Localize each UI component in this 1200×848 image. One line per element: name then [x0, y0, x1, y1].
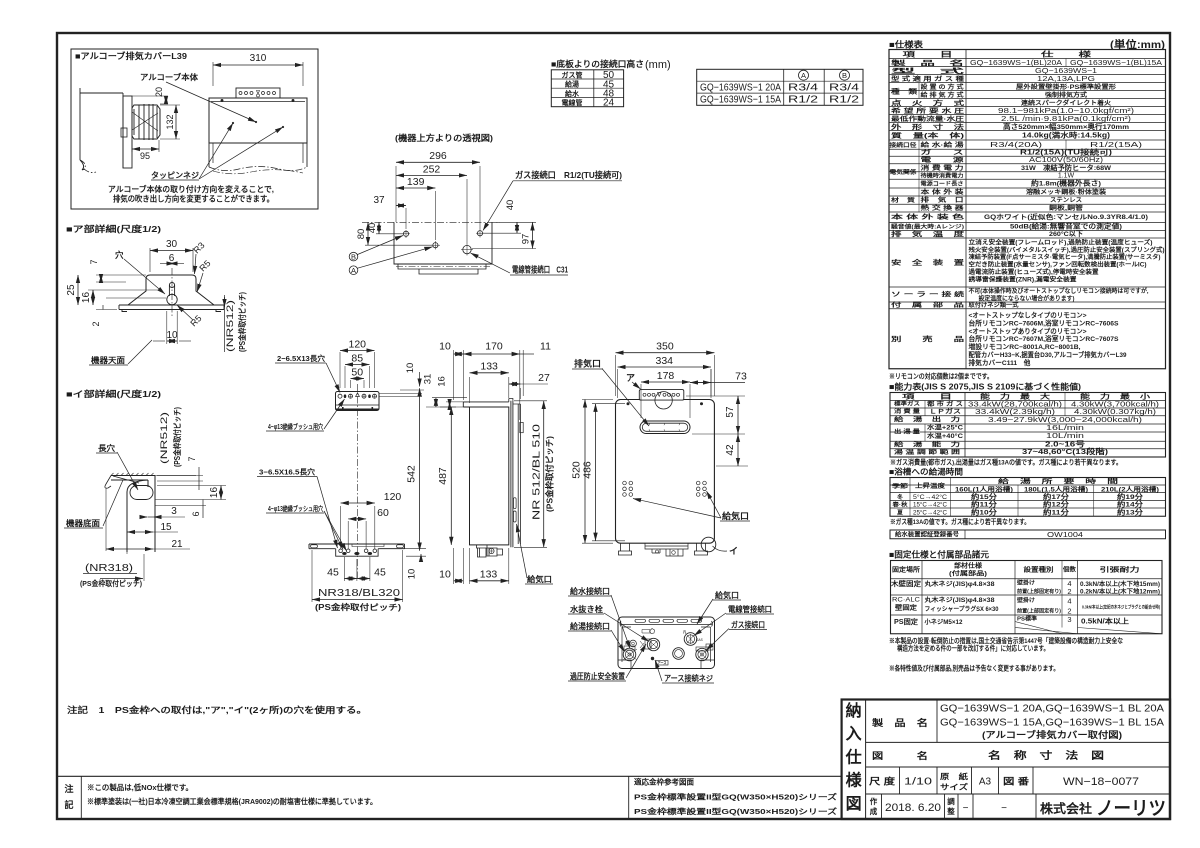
svg-text:不可(本体操作時及びオートストップなしリモコン接続時は可です: 不可(本体操作時及びオートストップなしリモコン接続時は可ですが, — [969, 287, 1149, 295]
svg-text:壁掛け: 壁掛け — [1017, 579, 1035, 587]
certification table — [890, 530, 1166, 539]
title block frame — [842, 700, 1170, 820]
svg-text:外 形 寸 法: 外 形 寸 法 — [891, 122, 965, 131]
dim 95 side view — [131, 140, 133, 152]
bracket centerline — [356, 384, 358, 578]
circled B label top view — [349, 252, 358, 261]
svg-text:R1/2(15A)(TU接続可): R1/2(15A)(TU接続可) — [1020, 148, 1112, 157]
svg-text:139: 139 — [407, 176, 425, 188]
svg-text:R3/4: R3/4 — [788, 83, 819, 94]
svg-text:※リモコンの対応個数は2個までです。: ※リモコンの対応個数は2個までです。 — [889, 372, 993, 381]
svg-text:(mm): (mm) — [645, 59, 671, 71]
svg-text:水温+40°C: 水温+40°C — [927, 432, 964, 440]
svg-text:個数: 個数 — [1062, 566, 1077, 574]
dim 15 detail I — [127, 531, 153, 533]
svg-text:(PS金枠取付ピッチ): (PS金枠取付ピッチ) — [172, 407, 182, 467]
detail A centerline — [171, 268, 173, 318]
svg-text:(機器上方よりの透視図): (機器上方よりの透視図) — [395, 133, 493, 143]
detail I unit bottom plate — [111, 476, 155, 481]
svg-text:WN−18−0077: WN−18−0077 — [1063, 776, 1139, 788]
svg-text:40: 40 — [505, 200, 516, 211]
svg-text:0.5kN/本以上: 0.5kN/本以上 — [1081, 617, 1129, 626]
svg-text:AC100V(50/60Hz): AC100V(50/60Hz) — [1029, 157, 1103, 164]
svg-text:(PS金枠取付ピッチ): (PS金枠取付ピッチ) — [237, 292, 247, 352]
svg-text:210L(2人用浴槽): 210L(2人用浴槽) — [1101, 485, 1159, 493]
svg-text:42: 42 — [725, 444, 736, 456]
svg-text:(付属部品): (付属部品) — [949, 570, 987, 578]
svg-text:252: 252 — [423, 164, 441, 176]
dim 42 front view — [737, 434, 739, 466]
svg-text:熱 交 換 器: 熱 交 換 器 — [921, 204, 965, 212]
svg-text:OW1004: OW1004 — [1047, 530, 1083, 539]
svg-text:<オートストップありタイプのリモコン>: <オートストップありタイプのリモコン> — [969, 326, 1087, 335]
dim 486 front view — [595, 404, 597, 541]
svg-text:180L(1.5人用浴槽): 180L(1.5人用浴槽) — [1024, 485, 1088, 493]
svg-text:フィッシャープラグSX 6×30: フィッシャープラグSX 6×30 — [925, 605, 1000, 613]
front view mount dots — [627, 403, 629, 405]
svg-text:希 望 所 要 水 圧: 希 望 所 要 水 圧 — [891, 107, 965, 115]
svg-text:132: 132 — [165, 114, 175, 129]
svg-text:15: 15 — [160, 522, 172, 533]
lower bracket plate — [309, 544, 405, 549]
center circle bottom view — [673, 648, 685, 660]
svg-text:※この製品は,低NOx仕様です。: ※この製品は,低NOx仕様です。 — [87, 782, 193, 792]
svg-text:※本製品の設置·転倒防止の措置は,国土交通省告示第1447号: ※本製品の設置·転倒防止の措置は,国土交通省告示第1447号「建築設備の構造耐力… — [889, 636, 1123, 645]
dim 2 detail A — [102, 305, 104, 310]
svg-text:給水接続口: 給水接続口 — [570, 586, 610, 596]
fixing table frame — [891, 561, 1163, 634]
svg-text:電気関係: 電気関係 — [890, 168, 917, 176]
svg-text:材 質: 材 質 — [890, 196, 916, 204]
svg-text:空だき防止装置(水量センサ),ファン回転数検出装置(ホールI: 空だき防止装置(水量センサ),ファン回転数検出装置(ホールIC) — [969, 261, 1147, 269]
svg-text:消 費 量: 消 費 量 — [894, 407, 920, 415]
svg-text:ステンレス: ステンレス — [1050, 197, 1082, 204]
dim 57 front view — [686, 395, 745, 397]
svg-text:ガス接続口 R1/2(TU接続可): ガス接続口 R1/2(TU接続可) — [515, 170, 622, 180]
svg-text:133: 133 — [480, 361, 498, 373]
svg-text:サイズ: サイズ — [940, 782, 969, 792]
svg-text:過電流防止装置(ヒューズ式),停電時安全装置: 過電流防止装置(ヒューズ式),停電時安全装置 — [967, 268, 1098, 276]
dim bottom side view 10 133 — [453, 548, 455, 584]
dim 520 front view — [582, 399, 613, 401]
svg-text:GAS: GAS — [696, 638, 703, 642]
bottom view top band — [620, 624, 713, 626]
svg-text:木壁固定: 木壁固定 — [890, 579, 922, 588]
svg-text:A: A — [801, 71, 806, 80]
svg-text:水抜き栓: 水抜き栓 — [570, 604, 603, 614]
dim 350 front view — [615, 355, 617, 396]
svg-text:上昇温度: 上昇温度 — [915, 482, 946, 490]
svg-text:(PS金枠取付ピッチ): (PS金枠取付ピッチ) — [315, 602, 401, 612]
svg-text:45: 45 — [327, 567, 339, 579]
svg-text:部材仕様: 部材仕様 — [954, 561, 983, 570]
detail A bracket profile — [128, 275, 214, 305]
svg-text:2−6.5X13長穴: 2−6.5X13長穴 — [277, 353, 326, 363]
svg-text:30: 30 — [166, 239, 178, 250]
svg-text:R3/4: R3/4 — [829, 83, 860, 94]
dim 16 detail A — [92, 290, 94, 305]
svg-text:強制排気方式: 強制排気方式 — [1045, 91, 1088, 99]
svg-text:注記 1 PS金枠への取付は,"ア","イ"(2ヶ所)の穴を: 注記 1 PS金枠への取付は,"ア","イ"(2ヶ所)の穴を使用する。 — [67, 705, 367, 715]
svg-text:引張耐力: 引張耐力 — [1100, 565, 1140, 574]
svg-text:(PS金枠取付ピッチ): (PS金枠取付ピッチ) — [80, 578, 142, 588]
dim 73 front view — [690, 382, 745, 384]
svg-text:丸木ネジ(JIS)φ4.8×38: 丸木ネジ(JIS)φ4.8×38 — [923, 580, 995, 588]
svg-text:約14分: 約14分 — [1117, 500, 1144, 509]
circled A label top view — [349, 266, 358, 275]
conduit fitting bottom view — [684, 633, 697, 646]
hot small valve — [630, 640, 637, 647]
dim 487 mounting — [450, 407, 452, 545]
svg-text:50dB(給湯:無響音室での測定値): 50dB(給湯:無響音室での測定値) — [1010, 222, 1122, 231]
svg-text:310: 310 — [250, 53, 267, 64]
svg-text:10: 10 — [439, 341, 451, 353]
svg-text:約19分: 約19分 — [1117, 492, 1144, 501]
gas fitting bottom view — [696, 648, 708, 660]
svg-text:<オートストップなしタイプのリモコン>: <オートストップなしタイプのリモコン> — [969, 311, 1087, 320]
svg-text:R1/2: R1/2 — [829, 95, 860, 106]
svg-text:標準ガス: 標準ガス — [894, 400, 920, 408]
svg-text:電線管: 電線管 — [562, 98, 583, 107]
svg-text:アルコーブ本体: アルコーブ本体 — [140, 72, 199, 82]
front view exhaust pill — [640, 421, 690, 434]
svg-text:16: 16 — [81, 292, 92, 304]
svg-text:様: 様 — [846, 771, 863, 790]
svg-text:(NR512): (NR512) — [159, 412, 170, 464]
svg-text:溶融メッキ鋼板·粉体塗装: 溶融メッキ鋼板·粉体塗装 — [1026, 188, 1107, 196]
svg-text:120: 120 — [348, 339, 366, 351]
svg-text:R5: R5 — [197, 258, 212, 273]
svg-text:台所リモコンRC−7607M,浴室リモコンRC−7607S: 台所リモコンRC−7607M,浴室リモコンRC−7607S — [969, 334, 1120, 343]
svg-text:イ: イ — [729, 546, 738, 556]
svg-text:騒音値(最大時:Aレンジ): 騒音値(最大時:Aレンジ) — [891, 223, 964, 231]
svg-text:10: 10 — [439, 569, 451, 581]
svg-text:長穴: 長穴 — [98, 443, 115, 453]
svg-text:ノーリツ: ノーリツ — [1096, 799, 1166, 820]
gas hole top view — [477, 231, 482, 236]
svg-text:45: 45 — [374, 567, 386, 579]
svg-text:排気の吹き出し方向を変更することができます。: 排気の吹き出し方向を変更することができます。 — [113, 194, 274, 204]
svg-text:■浴槽への給湯時間: ■浴槽への給湯時間 — [889, 467, 963, 477]
svg-text:排 気 温 度: 排 気 温 度 — [891, 229, 965, 238]
svg-text:過圧防止安全装置: 過圧防止安全装置 — [569, 671, 625, 681]
svg-text:95: 95 — [140, 151, 150, 161]
svg-text:付 属 部 品: 付 属 部 品 — [891, 301, 964, 309]
dim 10 detail A — [166, 311, 168, 344]
svg-text:※ガス種13Aの値です。ガス種により若干異なります。: ※ガス種13Aの値です。ガス種により若干異なります。 — [890, 517, 1030, 526]
svg-text:季節: 季節 — [892, 482, 908, 490]
svg-text:立消え安全装置(フレームロッド),過熱防止装置(温度ヒューズ: 立消え安全装置(フレームロッド),過熱防止装置(温度ヒューズ) — [969, 238, 1153, 246]
svg-text:7: 7 — [187, 456, 197, 461]
detail A keyhole slot — [169, 282, 174, 287]
dim 30 detail A — [149, 248, 151, 272]
svg-text:■能力表(JIS S 2075,JIS S 2109に基づく: ■能力表(JIS S 2075,JIS S 2109に基づく性能値) — [889, 382, 1081, 392]
svg-text:排気口: 排気口 — [574, 359, 601, 369]
water inlet fitting — [640, 641, 644, 648]
dim 45 45 lower bracket — [343, 557, 345, 581]
svg-text:項 目: 項 目 — [902, 391, 952, 400]
svg-text:固定場所: 固定場所 — [892, 565, 921, 574]
svg-text:約10分: 約10分 — [971, 507, 998, 516]
svg-text:点 火 方 式: 点 火 方 式 — [891, 98, 965, 107]
svg-text:冬: 冬 — [897, 493, 903, 501]
svg-text:給気口: 給気口 — [715, 590, 739, 600]
svg-text:133: 133 — [480, 569, 498, 581]
svg-text:R1/2: R1/2 — [788, 95, 819, 106]
dim 16 detail I — [157, 485, 226, 487]
svg-text:0.3kN/本以上(木下地15mm): 0.3kN/本以上(木下地15mm) — [1080, 580, 1160, 588]
hole A top view — [433, 243, 438, 248]
svg-text:(PS金枠取付ピッチ): (PS金枠取付ピッチ) — [545, 436, 555, 512]
svg-text:7: 7 — [89, 259, 99, 264]
svg-text:仕: 仕 — [845, 747, 862, 766]
svg-text:B: B — [351, 253, 356, 262]
hole B top view — [403, 231, 408, 236]
svg-text:都 市 ガ ス: 都 市 ガ ス — [926, 400, 963, 408]
svg-text:31: 31 — [423, 374, 434, 385]
svg-text:10: 10 — [405, 363, 416, 374]
svg-text:97: 97 — [521, 234, 532, 245]
dim 7 detail A — [96, 274, 146, 276]
svg-text:※各特性値及び付属部品,別売品は予告なく変更する事があります: ※各特性値及び付属部品,別売品は予告なく変更する事があります。 — [889, 664, 1059, 673]
svg-text:消 費 電 力: 消 費 電 力 — [921, 164, 964, 172]
svg-text:本 体 外 装 色: 本 体 外 装 色 — [891, 213, 966, 221]
svg-text:別 売 品: 別 売 品 — [889, 334, 965, 343]
svg-text:誘導雷保護装置(ZNR),漏電安全装置: 誘導雷保護装置(ZNR),漏電安全装置 — [969, 276, 1077, 284]
svg-text:37: 37 — [373, 195, 385, 206]
svg-text:PS金枠標準設置II型GQ(W350×H520)シリーズ(W: PS金枠標準設置II型GQ(W350×H520)シリーズ(WN−01−0297) — [634, 806, 838, 816]
svg-text:春·秋: 春·秋 — [891, 501, 907, 509]
svg-text:構造方法を定める件の一部を改訂する件」に対応しています。: 構造方法を定める件の一部を改訂する件」に対応しています。 — [897, 644, 1049, 653]
svg-text:図 番: 図 番 — [1003, 776, 1030, 787]
svg-text:待機時消費電力: 待機時消費電力 — [921, 171, 964, 179]
svg-text:260°C以下: 260°C以下 — [1049, 230, 1083, 238]
side view top plate — [463, 402, 509, 407]
svg-text:14.0kg(満水時:14.5kg): 14.0kg(満水時:14.5kg) — [1022, 131, 1110, 140]
svg-text:台所リモコンRC−7606M,浴室リモコンRC−7606S: 台所リモコンRC−7606M,浴室リモコンRC−7606S — [969, 318, 1120, 327]
bottom view inner lines — [622, 627, 711, 662]
svg-text:給 湯 所 要 時 間: 給 湯 所 要 時 間 — [998, 477, 1118, 485]
NR318 BL320 dim lower bracket — [311, 550, 313, 602]
svg-text:27: 27 — [538, 372, 550, 384]
wall section side view — [80, 88, 123, 170]
svg-text:2: 2 — [1067, 587, 1071, 596]
svg-text:■イ部詳細(尺度1/2): ■イ部詳細(尺度1/2) — [66, 389, 161, 399]
svg-text:設置種別: 設置種別 — [1024, 565, 1054, 574]
dim 16 side view — [449, 402, 451, 407]
dim 80 left top view — [365, 244, 432, 246]
svg-text:約1.8m(機器外長さ): 約1.8m(機器外長さ) — [1031, 179, 1101, 188]
bellows cover side view — [134, 104, 157, 140]
mount plate side view — [123, 96, 132, 168]
detail I slot — [130, 486, 153, 500]
svg-text:接続口径: 接続口径 — [890, 141, 917, 149]
svg-text:電 源: 電 源 — [921, 156, 965, 164]
svg-text:542: 542 — [406, 465, 418, 483]
upper bracket holes — [338, 394, 342, 398]
svg-text:178: 178 — [657, 370, 675, 382]
svg-text:350: 350 — [656, 341, 674, 353]
svg-text:電源コード長さ: 電源コード長さ — [921, 180, 964, 188]
svg-text:ガス管: ガス管 — [562, 71, 583, 80]
dim 120 upper bracket — [339, 352, 341, 388]
side view body — [470, 407, 509, 545]
svg-text:ＬＰガス: ＬＰガス — [929, 408, 961, 416]
svg-text:型 式 適 用 ガ ス 種: 型 式 適 用 ガ ス 種 — [891, 75, 965, 83]
svg-text:整: 整 — [947, 806, 955, 816]
dim 37 top view — [405, 208, 407, 229]
svg-text:排気カバーC111 他: 排気カバーC111 他 — [969, 358, 1031, 367]
conduit hole C31 top view — [463, 245, 471, 253]
svg-text:凍結予防装置(F点サーミスタ·電気ヒータ),満騰防止装置(サ: 凍結予防装置(F点サーミスタ·電気ヒータ),満騰防止装置(サーミスタ) — [969, 253, 1161, 261]
svg-text:給湯: 給湯 — [565, 80, 579, 89]
svg-text:高さ520mm×幅350mm×奥行170mm: 高さ520mm×幅350mm×奥行170mm — [1003, 122, 1129, 131]
svg-text:10: 10 — [407, 569, 418, 580]
svg-text:排 気 口: 排 気 口 — [921, 196, 964, 204]
dim 6 detail A — [169, 263, 174, 265]
svg-text:4−φ13絶縁ブッシュ用穴: 4−φ13絶縁ブッシュ用穴 — [268, 504, 323, 513]
svg-text:1.1W: 1.1W — [1058, 172, 1075, 179]
svg-text:3−6.5X16.5長穴: 3−6.5X16.5長穴 — [259, 467, 316, 477]
svg-text:入: 入 — [846, 725, 862, 743]
svg-text:給 水·給 湯: 給 水·給 湯 — [921, 141, 965, 149]
front view mount screws — [221, 99, 223, 101]
svg-text:25°C→42°C: 25°C→42°C — [913, 508, 947, 516]
svg-text:前置(上部固定有り): 前置(上部固定有り) — [1017, 607, 1061, 615]
dim 50 upper bracket — [350, 380, 352, 388]
svg-text:ア: ア — [626, 373, 635, 383]
svg-text:湯 温 調 節 範 囲: 湯 温 調 節 範 囲 — [894, 448, 960, 456]
svg-text:約13分: 約13分 — [1117, 507, 1144, 516]
svg-text:ソ ー ラ ー 接 続: ソ ー ラ ー 接 続 — [891, 291, 965, 299]
svg-text:−: − — [963, 803, 969, 814]
front view fan circle — [655, 392, 672, 409]
svg-text:73: 73 — [735, 371, 747, 383]
svg-text:12A,13A,LPG: 12A,13A,LPG — [1037, 74, 1096, 83]
bottom view body — [618, 617, 715, 669]
svg-text:項 目: 項 目 — [903, 50, 953, 59]
dim 252 top view — [466, 179, 468, 244]
GOLD logo mark bottom view — [642, 630, 650, 634]
svg-text:2018. 6.20: 2018. 6.20 — [885, 802, 941, 814]
svg-text:GQ−1639WS−1 20A,GQ−1639WS−1 BL: GQ−1639WS−1 20A,GQ−1639WS−1 BL 20A — [940, 703, 1164, 715]
svg-text:R3/4(20A): R3/4(20A) — [990, 142, 1042, 149]
svg-text:株式会社: 株式会社 — [1040, 801, 1093, 816]
side view wall rail — [517, 404, 519, 544]
detail I bracket plate — [127, 476, 155, 553]
svg-text:85: 85 — [351, 353, 363, 365]
side view rear rails — [510, 401, 512, 548]
svg-text:機器天面: 機器天面 — [91, 355, 125, 365]
svg-text:25: 25 — [66, 284, 77, 296]
svg-text:成: 成 — [870, 806, 878, 816]
svg-text:PS金枠標準設置II型GQ(W350×H520)シリーズ(W: PS金枠標準設置II型GQ(W350×H520)シリーズ(WN−01−0271) — [634, 792, 838, 802]
svg-text:11: 11 — [540, 341, 551, 353]
svg-text:約12分: 約12分 — [1043, 500, 1070, 509]
svg-text:適応金枠参考図面: 適応金枠参考図面 — [634, 777, 694, 787]
svg-text:A: A — [351, 266, 356, 275]
svg-text:製 品 名: 製 品 名 — [871, 717, 928, 728]
svg-text:3: 3 — [1067, 615, 1071, 624]
svg-text:給気口: 給気口 — [527, 574, 552, 584]
svg-text:296: 296 — [429, 150, 447, 162]
svg-text:電線管接続口: 電線管接続口 — [728, 604, 772, 614]
svg-text:40: 40 — [367, 223, 378, 234]
svg-text:(NR512): (NR512) — [225, 300, 236, 352]
svg-text:前置(上部固定有り): 前置(上部固定有り) — [1017, 587, 1061, 595]
earth screw bottom view — [651, 657, 654, 660]
dim 40 left top view — [376, 233, 403, 235]
svg-text:給 排 気 方 式: 給 排 気 方 式 — [921, 91, 965, 99]
svg-text:■アルコーブ排気カバーL39: ■アルコーブ排気カバーL39 — [75, 51, 187, 61]
top view body — [362, 221, 500, 223]
svg-text:本 体 外 装: 本 体 外 装 — [921, 188, 965, 196]
fixing diagonal blanks — [1015, 622, 1062, 634]
hot water outlet fitting — [623, 648, 636, 661]
svg-text:60: 60 — [377, 507, 389, 519]
circled B header — [840, 70, 850, 80]
svg-text:■底板よりの接続口高さ: ■底板よりの接続口高さ — [551, 59, 644, 69]
svg-text:A3: A3 — [979, 777, 992, 788]
dim 31 side view — [435, 398, 437, 407]
svg-text:約17分: 約17分 — [1043, 492, 1070, 501]
dim 40 right top view — [516, 222, 518, 233]
svg-text:10: 10 — [166, 330, 178, 341]
svg-text:夏: 夏 — [896, 508, 903, 516]
svg-text:取付けネジ類一式: 取付けネジ類一式 — [969, 301, 1020, 309]
dim 132 side view — [160, 104, 180, 106]
dim 334 front view — [617, 369, 619, 398]
front view vent holes right — [696, 481, 700, 485]
dim row top side view 10 170 11 — [453, 350, 455, 400]
svg-text:NR 512/BL 510: NR 512/BL 510 — [531, 424, 543, 520]
dim 6 detail I — [202, 500, 204, 519]
svg-text:■固定仕様と付属部品諸元: ■固定仕様と付属部品諸元 — [889, 550, 990, 560]
i mark circle front view — [701, 537, 716, 552]
bath time table frame — [890, 478, 1166, 517]
dim 7 detail I — [157, 475, 203, 477]
svg-text:安 全 装 置: 安 全 装 置 — [891, 258, 965, 267]
svg-text:銅板,銅管: 銅板,銅管 — [1049, 204, 1083, 212]
svg-text:給湯接続口: 給湯接続口 — [570, 621, 610, 631]
svg-text:4: 4 — [1067, 597, 1071, 606]
svg-text:小ネジM5×12: 小ネジM5×12 — [923, 618, 963, 626]
gas valve small — [706, 644, 713, 650]
svg-text:ガス接続口: ガス接続口 — [731, 620, 765, 630]
svg-text:ガ ス: ガ ス — [921, 149, 964, 157]
drain plug fitting — [647, 638, 659, 650]
top view bottom lip — [398, 264, 486, 274]
lower bracket end slots — [311, 545, 318, 548]
bottom plate connection height table — [551, 70, 623, 107]
alcove cover section box — [71, 49, 318, 209]
svg-text:R3: R3 — [191, 240, 206, 255]
svg-text:製 品 名: 製 品 名 — [889, 58, 964, 67]
svg-text:名 称 寸 法 図: 名 称 寸 法 図 — [988, 749, 1104, 762]
svg-text:334: 334 — [655, 355, 673, 367]
svg-text:注: 注 — [64, 783, 73, 794]
svg-text:設 置 の 方 式: 設 置 の 方 式 — [921, 83, 965, 91]
svg-text:(NR318): (NR318) — [85, 563, 133, 574]
svg-text:24: 24 — [603, 98, 615, 109]
upper bracket body — [336, 392, 380, 411]
svg-text:16: 16 — [437, 376, 448, 387]
dim 85 upper bracket — [344, 366, 346, 388]
capacity table frame — [890, 393, 1166, 458]
svg-text:PS固定: PS固定 — [894, 617, 918, 626]
dim 178 front view — [640, 384, 642, 418]
front view body — [616, 400, 715, 544]
